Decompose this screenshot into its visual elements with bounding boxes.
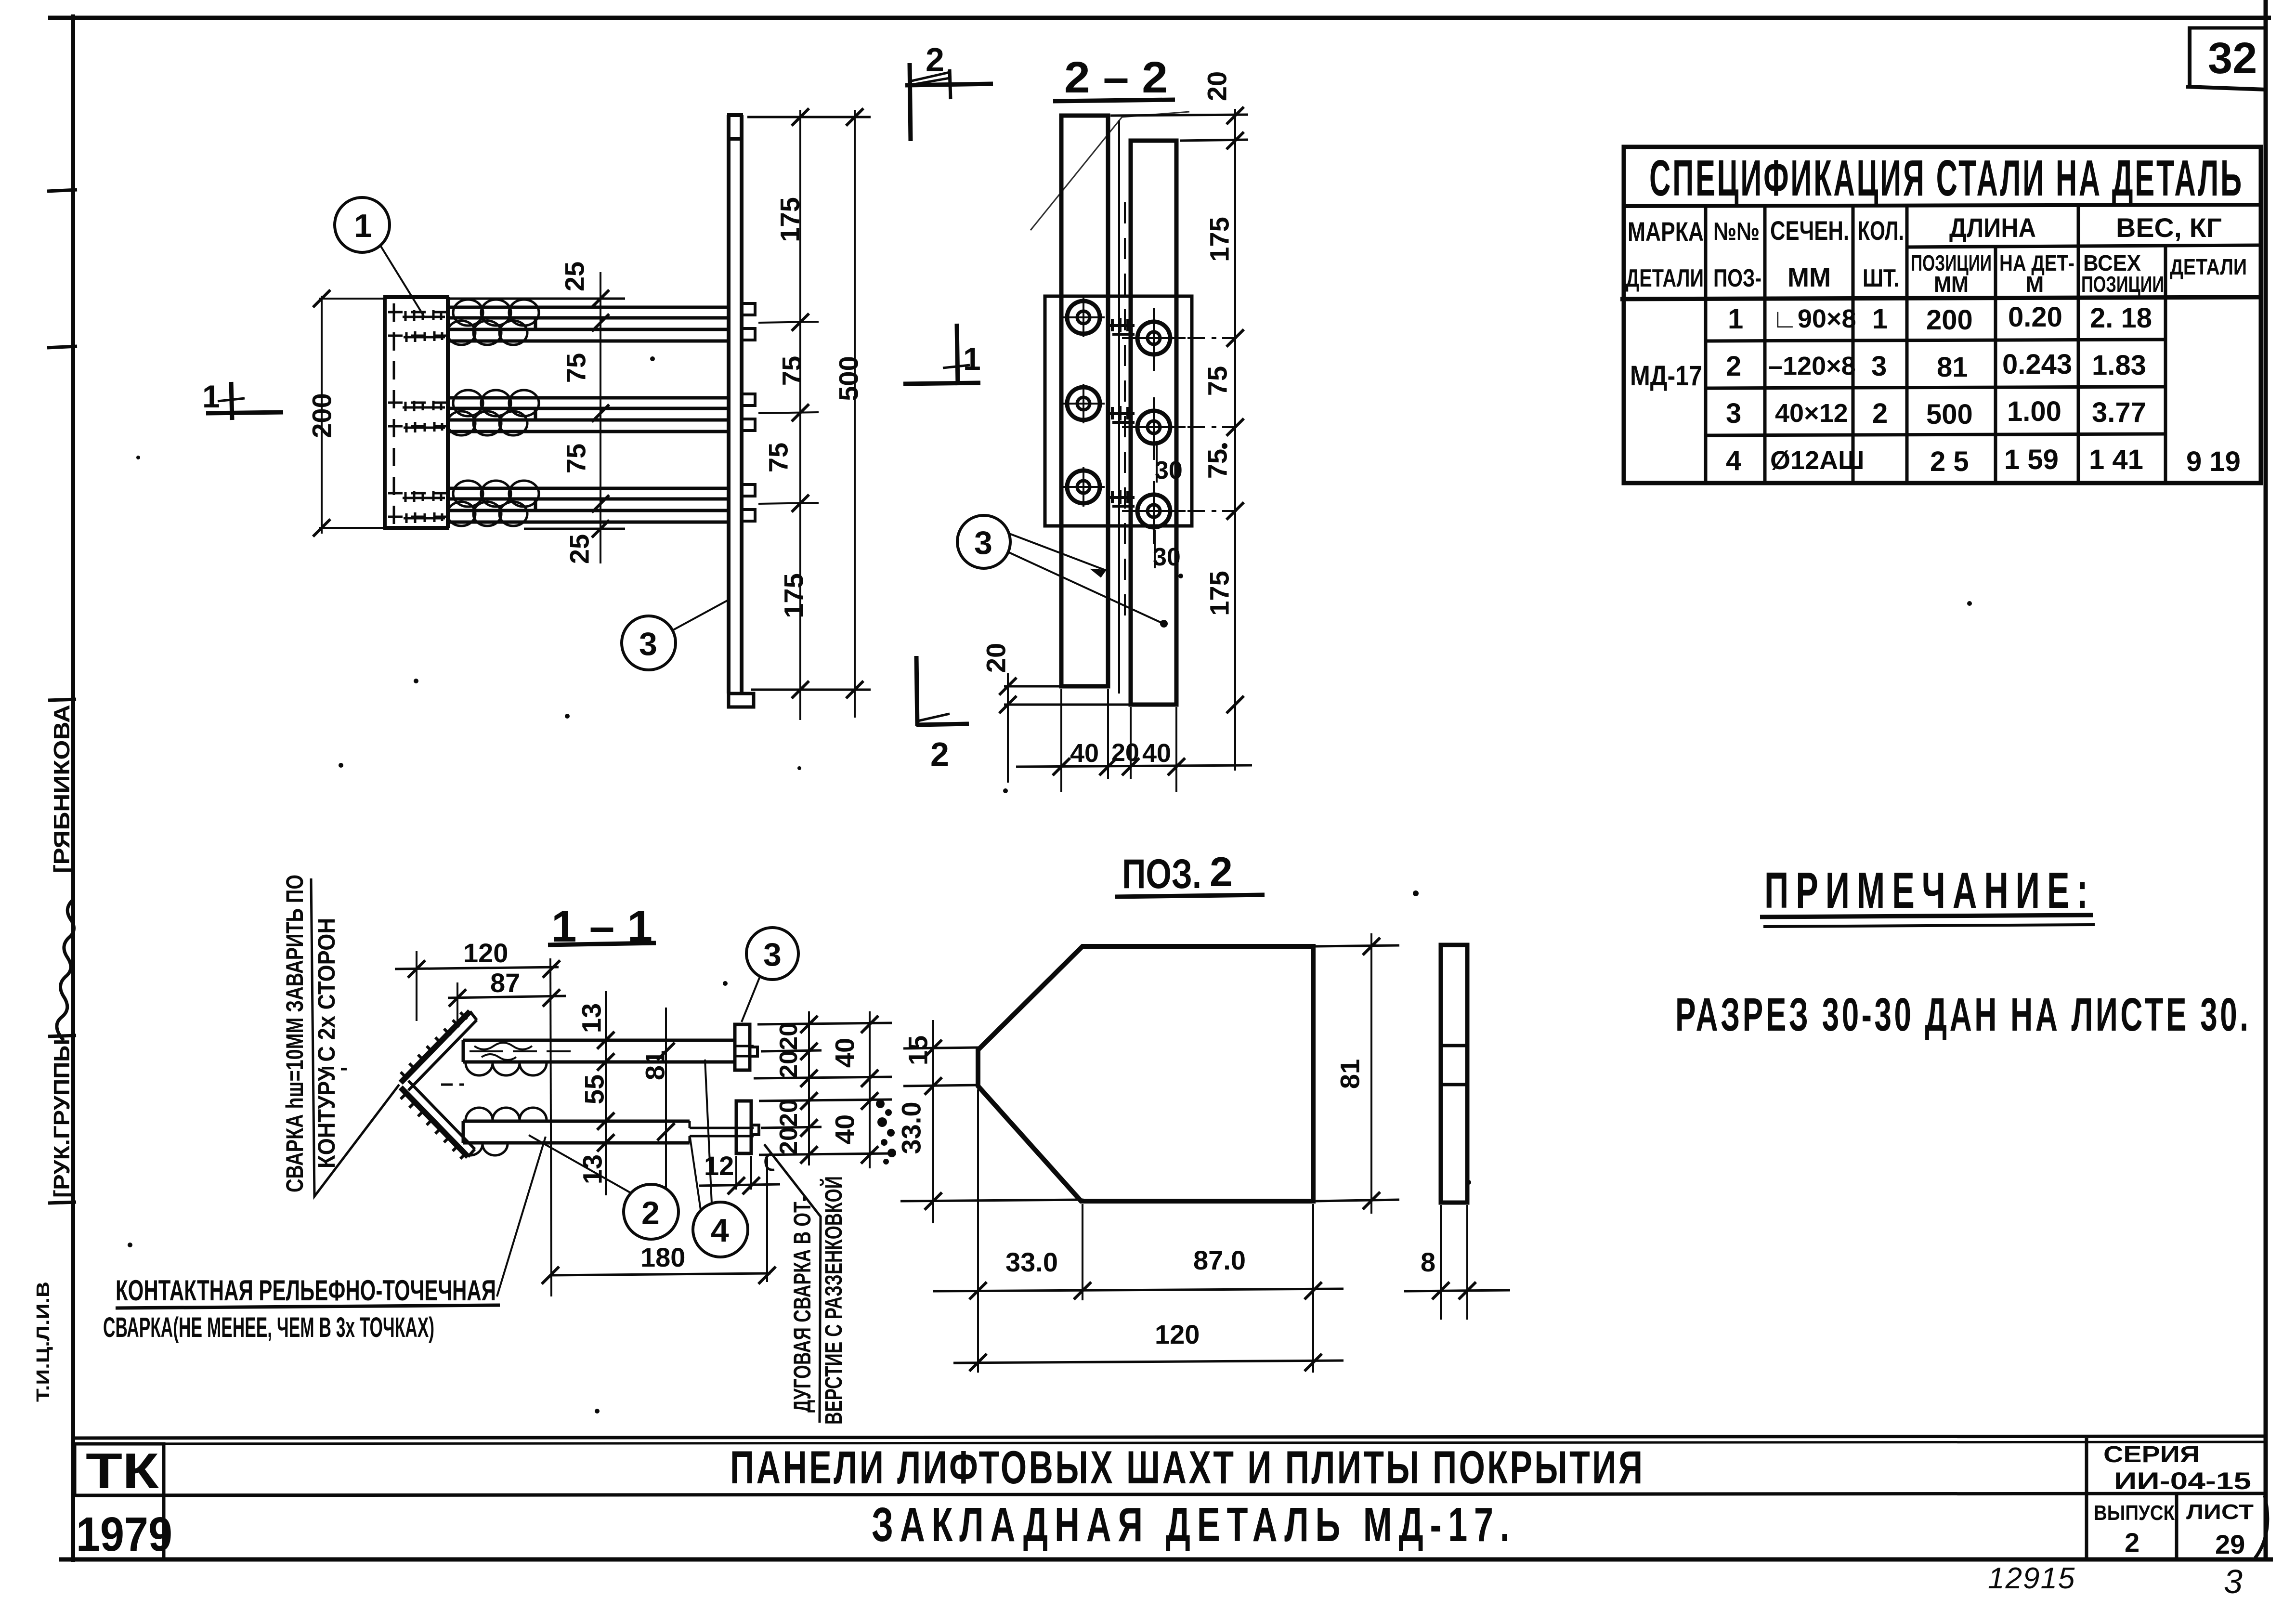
section mark 1 left [206,382,283,420]
svg-text:2: 2 [926,41,944,79]
plate top extension line [450,298,625,300]
kontaktnaya leader [497,1137,546,1296]
frame right border [2264,0,2268,1560]
svg-text:ВЕС, КГ: ВЕС, КГ [2116,212,2222,243]
dim 15 left [903,1020,980,1113]
table col line 3 [1852,206,1855,483]
rod row B weld scallops upper [453,390,539,416]
bolt nuts right of plate row B [742,394,755,431]
svg-text:Ø12АШ: Ø12АШ [1770,446,1864,475]
svg-text:12915: 12915 [1988,1562,2075,1595]
kontaktnaya underline [116,1305,500,1308]
svg-text:40: 40 [830,1038,860,1068]
svg-text:ЛИСТ: ЛИСТ [2186,1500,2254,1524]
svg-text:1 41: 1 41 [2089,444,2143,475]
top bolt shaft [735,1046,754,1056]
svg-text:Т.И.Ц.Л.И.В: Т.И.Ц.Л.И.В [33,1282,53,1402]
callout circle 3 of 2-2 [957,515,1168,628]
left plate pos.3 [1061,116,1108,686]
angle upper leg hatch ticks [401,1012,467,1079]
svg-text:ПАНЕЛИ ЛИФТОВЫХ ШАХТ И ПЛИТЫ П: ПАНЕЛИ ЛИФТОВЫХ ШАХТ И ПЛИТЫ ПОКРЫТИЯ [730,1441,1643,1493]
bottom dim line 33.0 / 87.0 [933,1089,1344,1373]
rod row B hidden dashes [388,403,447,426]
rod row A weld scallops upper [453,300,539,326]
1979 cell divider [162,1495,166,1558]
right border curl [2255,1495,2268,1558]
bottom bolt shaft [690,1121,754,1143]
bottom T right dims 20 20 40 [759,1088,892,1168]
dim 8 side view [1404,1205,1510,1320]
plate bottom extension line [524,528,625,530]
bottom dim line 120 [953,1354,1344,1371]
rod row C end tick [529,499,542,510]
top T plate pos.3 [735,1024,750,1070]
svg-text:30: 30 [1155,457,1183,484]
hole washer left 1 [1062,298,1105,337]
right plate pos.3 [1131,141,1176,705]
table col line 1 [1704,206,1708,483]
svg-text:РАЗРЕЗ 30-30 ДАН НА ЛИСТЕ 30.: РАЗРЕЗ 30-30 ДАН НА ЛИСТЕ 30. [1675,989,2248,1041]
svg-text:75: 75 [561,353,591,383]
right chain ticks [792,108,863,698]
svg-text:500: 500 [1926,399,1973,430]
svg-text:1: 1 [1728,303,1743,335]
svg-text:0.243: 0.243 [2002,349,2072,380]
svg-text:175: 175 [779,573,809,618]
rod row A bars [448,307,729,341]
section mark 2 top [905,63,993,141]
vypusk list divider [2175,1494,2179,1558]
section mark 1 right [903,324,980,385]
right dim chain of 2-2 [1110,107,1248,771]
svg-text:40×12: 40×12 [1775,399,1848,428]
svg-text:81: 81 [1937,352,1968,383]
table row line 3 [1706,434,2166,435]
svg-text:№№: №№ [1713,218,1760,246]
svg-text:ДЕТАЛИ: ДЕТАЛИ [1626,264,1704,292]
svg-text:ВЕРСТИЕ С РАЗЗЕНКОВКОЙ: ВЕРСТИЕ С РАЗЗЕНКОВКОЙ [820,1176,847,1425]
svg-text:33.0: 33.0 [1005,1247,1058,1277]
svg-text:40: 40 [830,1114,860,1144]
svg-text:200: 200 [1926,304,1973,336]
svg-text:2: 2 [641,1195,660,1231]
svg-text:2 – 2: 2 – 2 [1064,53,1168,102]
svg-text:СЕЧЕН.: СЕЧЕН. [1770,215,1849,246]
svg-text:32: 32 [2208,34,2257,83]
svg-text:ДЛИНА: ДЛИНА [1949,212,2036,243]
TK cell box [75,1444,164,1495]
svarka underline and leader [311,878,399,1196]
weld comb marks on angle row A [403,310,445,342]
svg-text:1: 1 [202,379,220,414]
rod row C weld scallops upper [453,481,539,507]
svg-text:20: 20 [1202,71,1232,101]
top rod hidden arc left [474,1043,532,1060]
bottom rod 1-1 [457,1101,759,1155]
svg-text:ПРИМЕЧАНИЕ:: ПРИМЕЧАНИЕ: [1764,863,2088,919]
bottom rod weld scallops above [466,1108,547,1120]
scan scratch line [1031,112,1189,230]
callout circle 3 of 1-1 [742,928,798,1022]
dim 180 [542,1156,776,1284]
weld comb marks on angle row B [403,401,445,432]
svg-text:–120×8: –120×8 [1768,352,1856,380]
hole washer left 3 [1062,467,1105,507]
rod C center extension [758,503,819,504]
svg-text:СПЕЦИФИКАЦИЯ СТАЛИ НА ДЕТАЛЬ: СПЕЦИФИКАЦИЯ СТАЛИ НА ДЕТАЛЬ [1649,150,2242,207]
table col line 2 [1763,206,1767,483]
dim chain 81 [657,1008,675,1190]
svg-text:3: 3 [1871,351,1887,382]
svg-text:3: 3 [1726,398,1741,429]
weld combs between plates 3 [1109,490,1135,506]
svg-text:ДЕТАЛИ: ДЕТАЛИ [2170,254,2247,279]
bottom dims of 2-2 [999,673,1252,792]
svg-text:175: 175 [1204,571,1235,615]
svg-text:75: 75 [777,356,807,386]
bottom T plate pos.3 [736,1101,751,1153]
svg-text:ММ: ММ [1787,262,1831,292]
title block top line [73,1436,2266,1438]
svg-text:55: 55 [579,1074,610,1104]
rod row A hidden dashes [388,312,447,336]
table col line 6 [2077,206,2080,483]
svg-text:13: 13 [576,1003,607,1033]
svg-text:13: 13 [577,1154,608,1184]
svg-text:3: 3 [2224,1563,2243,1600]
hole washer right 1 [1122,308,1237,371]
top T right dims 20 20 40 [754,1011,892,1092]
seriya cell divider [2085,1438,2088,1558]
svg-text:ММ: ММ [1934,272,1969,297]
svg-text:ТК: ТК [86,1443,159,1499]
svg-text:500: 500 [834,356,864,401]
svg-text:180: 180 [640,1242,685,1272]
rod row B weld scallops lower [447,411,527,435]
section mark 2 bottom [916,656,969,726]
svg-text:1979: 1979 [76,1507,172,1561]
svg-text:40: 40 [1070,739,1099,768]
plate pos.2 pentagon [978,946,1313,1201]
svg-text:20: 20 [775,1022,803,1050]
scan smudge [876,1100,896,1165]
svg-text:25: 25 [560,262,590,291]
svg-text:М: М [2025,272,2044,297]
frame top border [48,16,2271,20]
svg-text:87.0: 87.0 [1193,1245,1246,1275]
title block second top line [73,1442,2266,1444]
svg-text:120: 120 [463,938,508,968]
weld axis line [1118,120,1120,694]
svg-text:175: 175 [1204,217,1235,262]
svg-text:2: 2 [1726,351,1741,382]
hole washer left 2 [1062,384,1105,423]
svg-text:30: 30 [1153,543,1181,571]
svg-text:[РЯБНИКОВА: [РЯБНИКОВА [49,705,74,873]
right dim chain 175-75-75-175 [799,110,801,720]
angle pos.1 hidden edge dashed [393,303,395,524]
callout circle 4 [690,1060,748,1257]
rod A center extension [758,322,819,323]
rod row B end tick [529,408,542,420]
svg-text:ИИ-04-15: ИИ-04-15 [2114,1467,2251,1494]
table sublength divider [1907,245,2261,247]
plate pos.3 bottom foot [729,694,754,707]
svg-text:МД-17: МД-17 [1630,360,1702,392]
frame bottom border [59,1558,2273,1562]
top extension line [747,116,871,118]
svg-text:3.77: 3.77 [2092,397,2146,428]
weld combs between plates 2 [1109,406,1135,422]
svg-text:2: 2 [1872,398,1888,429]
left border tick marks [47,190,77,191]
dugovaya underline and leader [764,1144,821,1423]
svg-text:КОЛ.: КОЛ. [1858,215,1904,246]
svg-text:9 19: 9 19 [2186,446,2241,477]
svg-text:3: 3 [763,936,782,973]
svg-text:2. 18: 2. 18 [2090,302,2152,334]
rod row B bars [448,398,729,432]
svg-text:1: 1 [963,341,981,377]
handwritten 5 mark [766,1153,774,1170]
svg-text:20: 20 [775,1099,803,1127]
svg-text:75: 75 [561,444,591,473]
dim 12 under bottom T [699,1156,780,1194]
table col line 4 [1905,206,1909,483]
svg-text:20: 20 [775,1127,803,1155]
inner chain ticks [592,290,609,537]
table outer frame [1624,147,2261,483]
svg-text:ВЫПУСК: ВЫПУСК [2094,1501,2175,1525]
svg-text:8: 8 [1421,1247,1435,1277]
bottom rod weld scallops below [457,1144,508,1155]
svg-text:ПОЗ.: ПОЗ. [1122,851,1201,897]
svg-text:3: 3 [639,626,657,662]
callout circle 3 plan [622,600,728,670]
svg-text:87: 87 [490,968,520,998]
dim chain 13-55-13 [597,991,614,1195]
svg-text:1: 1 [1872,303,1888,335]
svg-text:15: 15 [903,1035,933,1065]
svg-text:1: 1 [354,208,372,244]
dim 120 [395,951,560,1021]
svg-text:4: 4 [1726,445,1741,476]
long extension line left of 180 [550,958,551,1296]
svg-text:75: 75 [1202,449,1233,479]
dim 81 right [1316,933,1399,1214]
top rod weld scallops below [466,1063,547,1075]
weld combs between plates 1 [1109,318,1135,334]
top rod 1-1 [463,1024,757,1075]
svg-text:ШТ.: ШТ. [1863,264,1899,292]
bottom extension line [751,689,871,691]
svg-text:ДУГОВАЯ СВАРКА В ОТ-: ДУГОВАЯ СВАРКА В ОТ- [789,1196,816,1413]
svg-text:2: 2 [1210,849,1233,895]
rod row C hidden dashes [388,493,447,517]
rod row A end tick [529,318,542,329]
svg-text:СВАРКА(НЕ МЕНЕЕ, ЧЕМ В 3х ТОЧК: СВАРКА(НЕ МЕНЕЕ, ЧЕМ В 3х ТОЧКАХ) [103,1312,434,1343]
svg-text:1.83: 1.83 [2092,350,2146,381]
svg-text:20: 20 [1111,739,1139,767]
svg-text:20: 20 [775,1050,803,1078]
title block middle line [73,1493,2266,1495]
svg-text:40: 40 [1142,739,1171,768]
rod B center extension [758,412,819,413]
rod row C bars [448,488,729,522]
table row line 2 [1706,387,2166,388]
svg-text:75: 75 [1202,366,1233,396]
svg-text:33.0: 33.0 [896,1102,926,1154]
svg-text:КОНТУРУ С 2х СТОРОН: КОНТУРУ С 2х СТОРОН [313,918,340,1168]
pos.2 side view [1441,945,1467,1203]
svg-text:МАРКА: МАРКА [1628,216,1704,247]
table title row line [1624,205,2261,206]
angle pos.1 plate outline [383,297,449,528]
svg-text:75: 75 [763,443,794,472]
dim 500 line [854,110,856,718]
axis dash at apex [322,1068,464,1085]
svg-text:81: 81 [640,1050,670,1080]
svg-text:175: 175 [775,197,805,242]
svg-text:81: 81 [1335,1059,1365,1089]
table row line 1 [1706,340,2166,341]
svg-text:[РУК.ГРУППЫ: [РУК.ГРУППЫ [49,1039,74,1198]
inner dim chain line [600,272,601,563]
rod row C weld scallops lower [447,502,527,526]
svg-text:КОНТАКТНАЯ РЕЛЬЕФНО-ТОЧЕЧНАЯ: КОНТАКТНАЯ РЕЛЬЕФНО-ТОЧЕЧНАЯ [116,1274,496,1307]
svg-text:25: 25 [564,534,595,564]
svg-text:2: 2 [930,735,949,773]
svg-text:2 5: 2 5 [1930,446,1969,477]
angle pos.1 lower leg [401,1087,468,1157]
svg-text:∟90×8: ∟90×8 [1772,304,1856,333]
dim 87 [448,982,566,1023]
left dim 200 line [313,290,385,537]
table header bottom line [1620,297,2263,299]
svg-text:ПОЗ-: ПОЗ- [1713,264,1761,292]
table col line 5 [1994,247,1997,483]
hole washer right 2 [1122,397,1237,460]
bolt nuts right of plate row C [742,484,755,521]
frame left border [71,14,75,1562]
svg-text:4: 4 [711,1212,729,1249]
svg-text:20: 20 [981,643,1011,673]
table col line 7 [2164,247,2167,483]
svg-text:ПОЗИЦИИ: ПОЗИЦИИ [2081,272,2164,297]
dim 33.0 left [900,1113,1083,1223]
weld axis dashed [1124,202,1126,626]
svg-text:29: 29 [2215,1529,2245,1559]
sheet number box 32 [2186,28,2267,90]
stray specks [128,356,1972,1414]
svg-text:3: 3 [974,524,992,561]
svg-text:СВАРКА hш=10ММ ЗАВАРИТЬ ПО: СВАРКА hш=10ММ ЗАВАРИТЬ ПО [281,875,308,1192]
svg-text:120: 120 [1155,1319,1200,1349]
angle lower leg hatch ticks [401,1092,467,1159]
svg-text:0.20: 0.20 [2008,301,2062,333]
margin signature squiggle [57,900,74,1040]
rod row A weld scallops lower [447,321,527,345]
svg-text:СЕРИЯ: СЕРИЯ [2103,1442,2200,1467]
callout circle 1 [335,197,424,316]
svg-text:2: 2 [2125,1527,2139,1558]
bolt nuts right of plate row A [742,303,755,340]
hole washer right 3 [1122,481,1237,544]
svg-text:1.00: 1.00 [2007,396,2061,427]
background angle rectangle [1045,296,1192,526]
svg-text:1 59: 1 59 [2004,444,2059,475]
plate pos.3 edge view vertical [727,115,743,694]
angle pos.1 upper leg [322,1011,477,1159]
weld comb marks on angle row C [403,491,445,523]
callout circle 2 [529,1135,678,1239]
